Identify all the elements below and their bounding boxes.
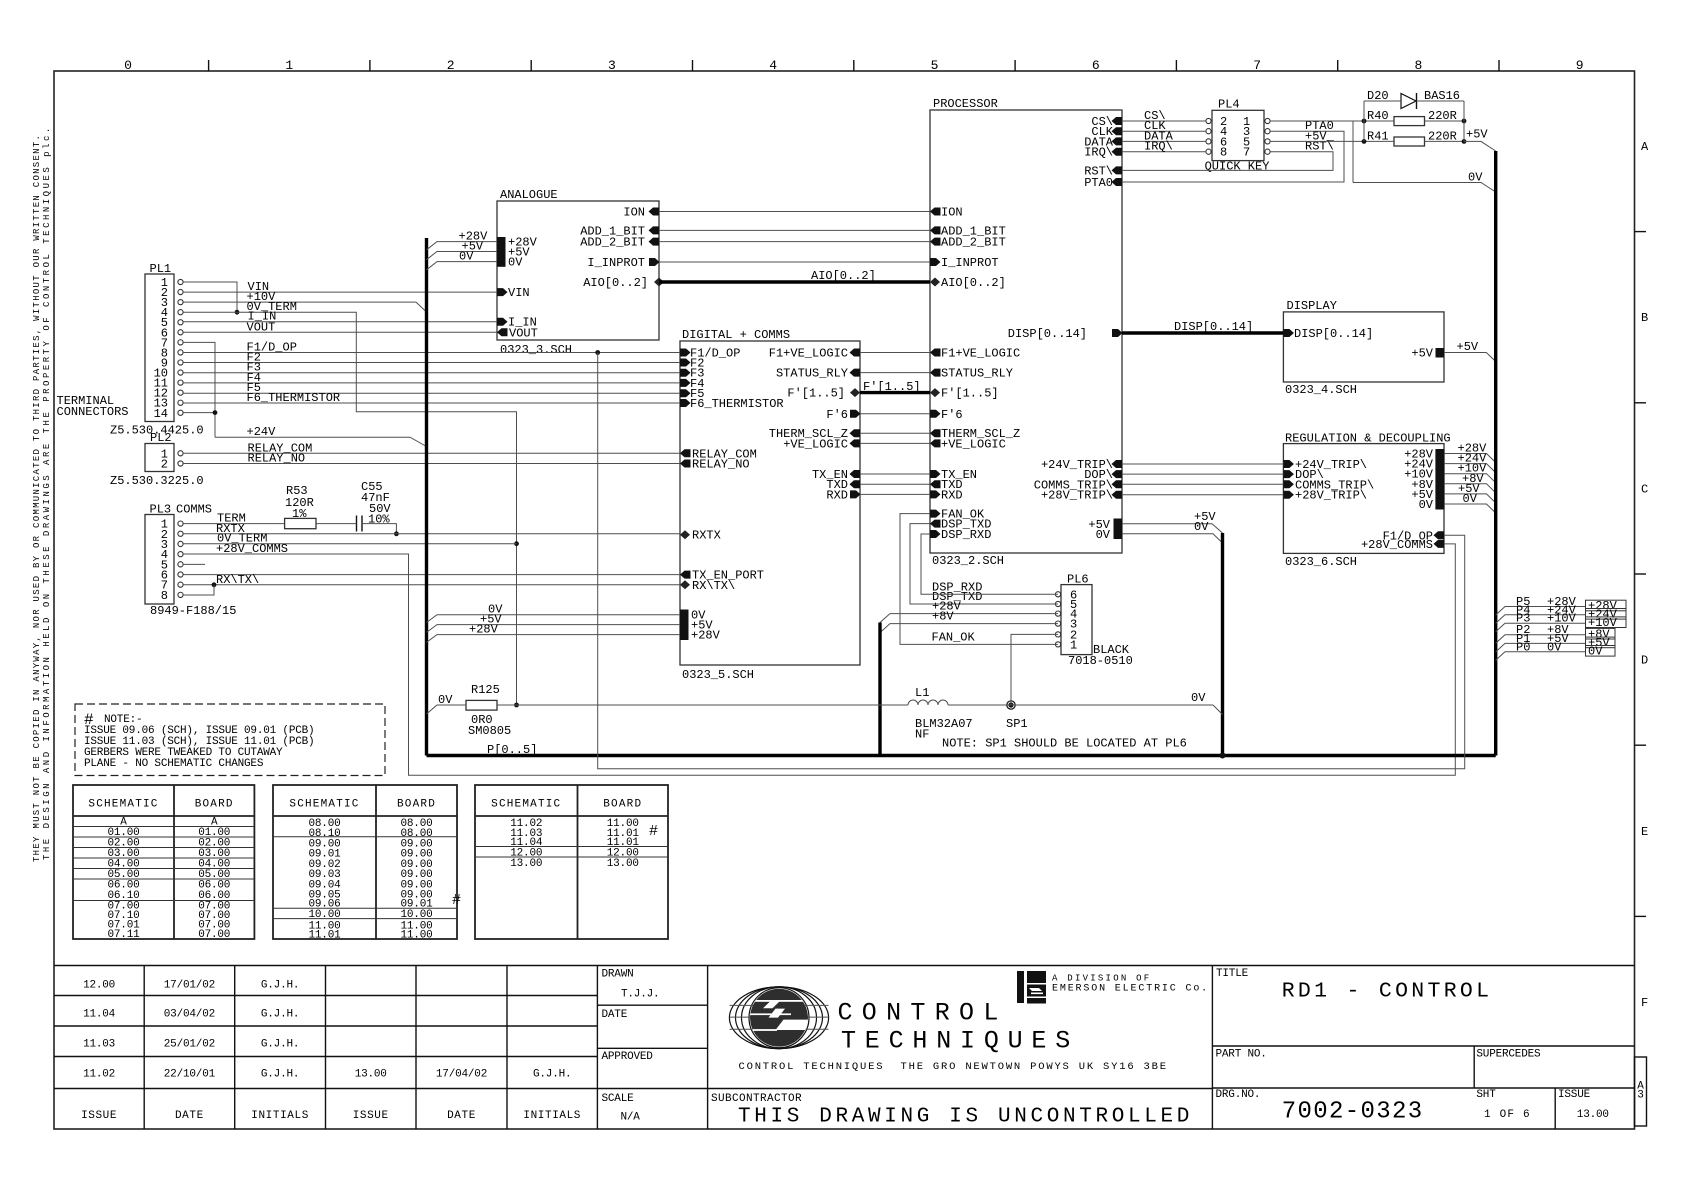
svg-text:SP1: SP1 <box>1006 717 1028 731</box>
wire FAN_OK to PL6 pin1 <box>900 514 1058 645</box>
svg-text:7018-0510: 7018-0510 <box>1068 654 1133 668</box>
svg-text:DISPLAY: DISPLAY <box>1287 299 1337 313</box>
svg-text:RELAY_NO: RELAY_NO <box>692 458 750 472</box>
svg-text:SHT: SHT <box>1476 1089 1496 1101</box>
PROCESSOR pin THERM_SCL_Z <box>930 429 941 437</box>
PROCESSOR pin DATA <box>1112 137 1123 145</box>
svg-text:VOUT: VOUT <box>247 320 276 334</box>
svg-text:25/01/02: 25/01/02 <box>164 1039 215 1051</box>
ANALOGUE pin ADD_1_BIT <box>649 226 660 234</box>
svg-text:0: 0 <box>124 58 132 73</box>
svg-text:DRAWN: DRAWN <box>602 969 634 981</box>
wire PROCESSOR +5V into right bus <box>1122 524 1223 533</box>
DIGITAL pin F5 <box>680 389 691 397</box>
svg-text:PROCESSOR: PROCESSOR <box>933 97 998 111</box>
A3 size tag <box>1635 1057 1647 1126</box>
PROCESSOR pin DOP\ <box>1112 470 1123 478</box>
svg-text:DATE: DATE <box>175 1110 204 1122</box>
DIGITAL pin RXTX <box>680 530 690 539</box>
REGULATION power rail bus entries <box>1444 454 1496 463</box>
svg-text:BOARD: BOARD <box>195 798 234 810</box>
REGULATION pin COMMS_TRIP\ <box>1283 480 1294 488</box>
svg-text:0V: 0V <box>1547 640 1562 654</box>
PROCESSOR pin DISP[0..14] bus <box>1112 329 1123 337</box>
power bus vertical right <box>1494 151 1497 756</box>
svg-text:ION: ION <box>941 206 963 220</box>
svg-text:RXTX: RXTX <box>692 529 721 543</box>
svg-text:THIS DRAWING IS UNCONTROLLED: THIS DRAWING IS UNCONTROLLED <box>738 1106 1193 1129</box>
power bus vertical P[0..5] left <box>425 238 428 756</box>
wire PL6 pin2 to SP1 <box>1011 634 1058 705</box>
svg-text:F'[1..5]: F'[1..5] <box>787 387 845 401</box>
PROCESSOR pin IRQ\ <box>1112 148 1123 156</box>
wire R41 right to +5V node <box>1425 140 1465 142</box>
svg-text:ION: ION <box>623 206 645 220</box>
ANALOGUE pin I_INPROT <box>649 258 660 266</box>
DIGITAL pin RELAY_COM <box>680 449 691 457</box>
wire +28V to PL6 pin4 <box>880 614 1058 623</box>
wire 0V_TERM down to R125 net <box>516 544 518 705</box>
PROCESSOR pin DSP_TXD <box>930 520 941 528</box>
svg-text:17/01/02: 17/01/02 <box>164 979 215 991</box>
PROCESSOR pin F'[1..5] bus <box>930 388 940 397</box>
wire F'6 <box>860 413 930 415</box>
wire 0V from quick key into power bus <box>1353 183 1496 193</box>
PROCESSOR pin I_INPROT <box>930 258 941 266</box>
svg-text:+VE_LOGIC: +VE_LOGIC <box>941 437 1006 451</box>
svg-text:0323_3.SCH: 0323_3.SCH <box>500 343 572 357</box>
svg-text:4: 4 <box>769 58 777 73</box>
svg-text:0V: 0V <box>438 693 453 707</box>
PROCESSOR pin AIO[0..2] bus <box>930 278 940 287</box>
svg-text:RXD: RXD <box>826 488 848 502</box>
power bus vertical from processor to P bus <box>1221 533 1224 756</box>
svg-text:11.04: 11.04 <box>83 1009 116 1021</box>
wire +28V_COMMS from PL3 pin4 <box>183 544 1455 775</box>
svg-text:#: # <box>452 892 461 909</box>
resistor R41 220R <box>1394 137 1425 146</box>
svg-text:03/04/02: 03/04/02 <box>164 1009 215 1021</box>
svg-text:RELAY_NO: RELAY_NO <box>248 452 306 466</box>
svg-text:11.01: 11.01 <box>308 930 341 942</box>
svg-text:8: 8 <box>1414 58 1422 73</box>
svg-text:C: C <box>1641 482 1648 496</box>
svg-text:#: # <box>649 823 658 840</box>
svg-text:13.00: 13.00 <box>1577 1109 1609 1121</box>
svg-text:PLANE - NO SCHEMATIC CHANGES: PLANE - NO SCHEMATIC CHANGES <box>84 758 264 770</box>
svg-text:+5V: +5V <box>1457 340 1479 354</box>
svg-text:+5V: +5V <box>1466 128 1488 142</box>
DIGITAL pin F1/D_OP <box>680 349 691 357</box>
svg-text:F'6: F'6 <box>941 408 963 422</box>
table 2 schematic/board revision cross-reference table <box>273 785 457 939</box>
svg-text:9: 9 <box>1576 58 1584 73</box>
svg-text:0V: 0V <box>1096 528 1111 542</box>
svg-text:+28V: +28V <box>469 623 499 637</box>
PROCESSOR pin STATUS_RLY <box>930 369 941 377</box>
svg-text:+28V_TRIP\: +28V_TRIP\ <box>1295 489 1367 503</box>
svg-text:IRQ\: IRQ\ <box>1144 140 1173 154</box>
svg-text:AIO[0..2]: AIO[0..2] <box>583 276 648 290</box>
DIGITAL pin F3 <box>680 369 691 377</box>
svg-text:DSP_RXD: DSP_RXD <box>932 580 982 594</box>
DIGITAL pin RX\TX\ <box>680 580 690 589</box>
svg-text:COMMS: COMMS <box>176 503 212 517</box>
table 3 schematic/board revision cross-reference table <box>475 785 668 939</box>
PROCESSOR pin TXD <box>930 480 941 488</box>
wire +28V_TRIP\ <box>1122 494 1283 496</box>
svg-text:I_INPROT: I_INPROT <box>941 256 999 270</box>
svg-text:0V: 0V <box>508 256 523 270</box>
wire RXD <box>860 493 930 495</box>
ANALOGUE power pins +28V +5V 0V <box>497 237 506 267</box>
PROCESSOR pin CS\ <box>1112 117 1123 125</box>
svg-text:I_INPROT: I_INPROT <box>587 256 645 270</box>
svg-text:EMERSON ELECTRIC Co.: EMERSON ELECTRIC Co. <box>1052 984 1209 995</box>
svg-text:+28V_COMMS: +28V_COMMS <box>216 542 288 556</box>
wire ADD_2_BIT <box>659 241 930 243</box>
svg-text:8949-F188/15: 8949-F188/15 <box>150 604 236 618</box>
wire TXD <box>860 483 930 485</box>
svg-text:B: B <box>1641 311 1648 325</box>
svg-text:0V: 0V <box>1588 645 1603 659</box>
wire 0V line through R125 L1 SP1 <box>427 705 467 714</box>
svg-text:+5V_: +5V_ <box>1305 129 1335 143</box>
svg-text:11.03: 11.03 <box>83 1039 115 1051</box>
svg-text:F6_THERMISTOR: F6_THERMISTOR <box>247 391 341 405</box>
wire PL4 pin1 to R40 and D20 <box>1270 120 1394 122</box>
wire R40 right to +5V node <box>1425 120 1465 122</box>
svg-text:12.00: 12.00 <box>83 979 115 991</box>
svg-text:ADD_2_BIT: ADD_2_BIT <box>941 236 1006 250</box>
svg-text:NOTE: SP1 SHOULD BE LOCATED AT: NOTE: SP1 SHOULD BE LOCATED AT PL6 <box>942 737 1187 751</box>
wire THERM_SCL_Z <box>860 432 930 434</box>
svg-text:TITLE: TITLE <box>1216 968 1249 980</box>
svg-text:1 OF 6: 1 OF 6 <box>1484 1109 1531 1121</box>
PROCESSOR pin ION <box>930 208 941 216</box>
REGULATION pin F1/D_OP <box>1434 531 1445 539</box>
wire VOUT <box>183 331 497 333</box>
svg-text:PART NO.: PART NO. <box>1216 1048 1267 1060</box>
DIGITAL pin STATUS_RLY <box>850 369 861 377</box>
svg-text:STATUS_RLY: STATUS_RLY <box>941 367 1013 381</box>
DIGITAL pin F6_THERMISTOR <box>680 399 691 407</box>
svg-text:+28V_TRIP\: +28V_TRIP\ <box>1041 489 1113 503</box>
svg-text:17/04/02: 17/04/02 <box>436 1069 487 1081</box>
wire F2 <box>183 362 680 364</box>
wire RX\TX\ <box>183 584 680 586</box>
wire D20 left leg <box>1364 100 1401 102</box>
wire F1/D_OP <box>183 352 680 354</box>
svg-text:07.00: 07.00 <box>198 929 230 941</box>
dashed note box <box>75 704 385 776</box>
bus entry 0V to ANALOGUE <box>427 262 498 270</box>
svg-text:5: 5 <box>931 58 939 73</box>
spark gap SP1 <box>1007 701 1015 709</box>
svg-text:0V: 0V <box>1191 691 1206 705</box>
svg-text:SCHEMATIC: SCHEMATIC <box>491 798 561 810</box>
DIGITAL pin RXD <box>850 490 861 498</box>
wire I_INPROT <box>659 261 930 263</box>
wire +10V into power bus <box>183 302 427 312</box>
wire DISPLAY +5V into bus <box>1444 353 1496 362</box>
svg-text:0V: 0V <box>1463 492 1478 506</box>
svg-text:1: 1 <box>285 58 293 73</box>
DIGITAL pin F1+VE_LOGIC <box>850 349 861 357</box>
capacitor C55 47nF 50V 10% <box>356 516 358 532</box>
svg-text:10.00: 10.00 <box>400 909 432 921</box>
Emerson logo <box>1017 971 1024 1003</box>
bus entry +5V to ANALOGUE <box>427 252 498 260</box>
svg-text:8: 8 <box>161 589 168 603</box>
svg-text:F6_THERMISTOR: F6_THERMISTOR <box>690 397 784 411</box>
svg-text:G.J.H.: G.J.H. <box>533 1069 571 1081</box>
wire F3 <box>183 372 680 374</box>
svg-text:RX\TX\: RX\TX\ <box>692 579 735 593</box>
svg-text:3: 3 <box>608 58 616 73</box>
DIGITAL pin F'6 <box>850 410 861 418</box>
svg-text:N/A: N/A <box>621 1112 641 1124</box>
svg-text:ISSUE: ISSUE <box>353 1110 389 1122</box>
svg-text:DIGITAL + COMMS: DIGITAL + COMMS <box>682 328 790 342</box>
PROCESSOR pin +24V_TRIP\ <box>1112 460 1123 468</box>
wire R53 to C55 <box>316 523 357 525</box>
wire PL1 pin1 to 0V_TERM junction <box>183 282 237 312</box>
svg-text:PL4: PL4 <box>1218 98 1240 112</box>
DIGITAL pin F4 <box>680 379 691 387</box>
svg-text:DRG.NO.: DRG.NO. <box>1216 1089 1261 1101</box>
svg-text:0323_4.SCH: 0323_4.SCH <box>1285 383 1357 397</box>
wire +24V_TRIP\ <box>1122 463 1283 465</box>
svg-text:13.00: 13.00 <box>510 858 542 870</box>
title block outline and grid <box>54 965 1635 967</box>
svg-text:A DIVISION OF: A DIVISION OF <box>1052 973 1151 983</box>
REGULATION pin +24V_TRIP\ <box>1283 460 1294 468</box>
svg-text:13.00: 13.00 <box>355 1069 387 1081</box>
svg-text:CONTROL: CONTROL <box>838 998 1008 1027</box>
svg-text:6: 6 <box>1092 58 1100 73</box>
net P0 0V <box>1496 652 1586 661</box>
svg-text:THE DESIGN AND INFORMATION HEL: THE DESIGN AND INFORMATION HELD ON THESE… <box>42 125 52 860</box>
svg-text:R125: R125 <box>471 683 500 697</box>
PROCESSOR power pins +5V 0V <box>1114 519 1123 540</box>
top ruler ticks <box>208 60 210 71</box>
wire COMMS_TRIP\ <box>1122 483 1283 485</box>
wire DOP\ <box>1122 473 1283 475</box>
REGULATION pin +28V_COMMS <box>1434 540 1445 548</box>
PROCESSOR pin CLK <box>1112 127 1123 135</box>
REGULATION power pins +28V..0V <box>1435 449 1444 510</box>
power bus riser at PL6 <box>878 623 881 756</box>
svg-text:P0: P0 <box>1516 640 1530 654</box>
svg-text:SCHEMATIC: SCHEMATIC <box>88 798 158 810</box>
svg-text:L1: L1 <box>915 686 929 700</box>
wire PL3 pin5 stub <box>183 563 205 565</box>
svg-text:SCHEMATIC: SCHEMATIC <box>289 798 359 810</box>
svg-text:D: D <box>1641 654 1648 668</box>
svg-text:10.00: 10.00 <box>308 909 340 921</box>
svg-text:F: F <box>1641 996 1648 1010</box>
wire CS\ to PL4 <box>1122 120 1206 122</box>
svg-text:DISP[0..14]: DISP[0..14] <box>1294 327 1373 341</box>
wire STATUS_RLY <box>860 372 930 374</box>
wire DATA to PL4 <box>1122 140 1206 142</box>
svg-text:F'[1..5]: F'[1..5] <box>941 387 999 401</box>
DIGITAL pin TX_EN <box>850 470 861 478</box>
net P4 +24V <box>1496 615 1586 624</box>
ANALOGUE pin ADD_2_BIT <box>649 238 660 246</box>
svg-text:1%: 1% <box>292 507 307 521</box>
wire PL3 pin8 to pin7 net <box>183 585 214 595</box>
svg-text:8: 8 <box>1220 146 1227 160</box>
table 1 schematic/board revision cross-reference table <box>73 785 254 939</box>
svg-text:7: 7 <box>1243 146 1250 160</box>
svg-text:1: 1 <box>1070 638 1077 652</box>
svg-text:0323_6.SCH: 0323_6.SCH <box>1285 555 1357 569</box>
svg-text:QUICK KEY: QUICK KEY <box>1205 159 1270 173</box>
svg-text:RX\TX\: RX\TX\ <box>216 573 259 587</box>
DISPLAY pin +5V <box>1436 348 1445 358</box>
svg-text:RXD: RXD <box>941 488 963 502</box>
svg-text:INITIALS: INITIALS <box>251 1110 309 1122</box>
svg-text:22/10/01: 22/10/01 <box>164 1069 216 1081</box>
svg-text:+5V: +5V <box>1411 347 1433 361</box>
bus entry +5V to DIGITAL <box>427 625 681 633</box>
svg-text:SUBCONTRACTOR: SUBCONTRACTOR <box>711 1093 802 1105</box>
svg-text:G.J.H.: G.J.H. <box>261 1069 299 1081</box>
resistor R125 0R0 SM0805 <box>466 700 497 710</box>
svg-text:SM0805: SM0805 <box>468 724 511 738</box>
svg-text:+28V: +28V <box>691 629 721 643</box>
ANALOGUE pin VIN <box>497 288 508 296</box>
wire D20 right leg <box>1417 100 1465 102</box>
svg-text:DATE: DATE <box>447 1110 476 1122</box>
svg-text:+28V_COMMS: +28V_COMMS <box>1361 538 1433 552</box>
bus entry +28V to ANALOGUE <box>427 242 498 250</box>
PROCESSOR pin DSP_RXD <box>930 530 941 538</box>
resistor R40 220R <box>1394 117 1425 126</box>
DISPLAY pin DISP[0..14] bus <box>1283 329 1294 337</box>
DIGITAL pin +VE_LOGIC <box>850 439 861 447</box>
DIGITAL pin TX_EN_PORT <box>680 571 691 579</box>
wire +VE_LOGIC <box>860 442 930 444</box>
wire PL1 pin14 stub to +24V junction <box>183 412 215 414</box>
svg-text:2: 2 <box>161 458 168 472</box>
bus DISP[0..14] to DISPLAY <box>1122 331 1283 334</box>
wire F1+VE_LOGIC <box>860 352 930 354</box>
svg-text:+8V: +8V <box>932 610 954 624</box>
svg-text:AIO[0..2]: AIO[0..2] <box>811 269 876 283</box>
ANALOGUE pin VOUT <box>497 328 508 336</box>
wire ION <box>659 211 930 213</box>
PROCESSOR pin TX_EN <box>930 470 941 478</box>
ANALOGUE pin ION <box>649 208 660 216</box>
bus entry 0V to DIGITAL <box>427 615 681 623</box>
ANALOGUE pin AIO[0..2] <box>654 278 664 287</box>
net P1 +5V <box>1496 643 1586 652</box>
net P3 +10V <box>1496 623 1586 632</box>
svg-text:11.02: 11.02 <box>83 1069 115 1081</box>
svg-text:E: E <box>1641 825 1648 839</box>
svg-text:0V: 0V <box>1194 520 1209 534</box>
ANALOGUE pin I_IN <box>497 318 508 326</box>
wire 0V into right bus <box>1213 705 1223 715</box>
svg-text:SUPERCEDES: SUPERCEDES <box>1476 1048 1541 1060</box>
wire PL4 pin1 net down to 0V <box>1352 121 1354 183</box>
svg-text:G.J.H.: G.J.H. <box>261 979 299 991</box>
REGULATION pin +28V_TRIP\ <box>1283 491 1294 499</box>
wire F6_THERMISTOR <box>183 402 680 404</box>
wire DSP_TXD to PL6 pin5 <box>910 524 1058 604</box>
wire TX_EN <box>860 473 930 475</box>
bus entry +28V to DIGITAL <box>427 635 681 643</box>
DIGITAL pin THERM_SCL_Z <box>850 429 861 437</box>
svg-text:INITIALS: INITIALS <box>523 1110 581 1122</box>
PROCESSOR pin FAN_OK <box>930 510 941 518</box>
wire C55 to RXTX junction <box>362 524 396 534</box>
svg-text:0V: 0V <box>459 250 474 264</box>
svg-text:2: 2 <box>447 58 455 73</box>
PROCESSOR pin RXD <box>930 490 941 498</box>
svg-text:ANALOGUE: ANALOGUE <box>500 188 558 202</box>
wire CLK to PL4 <box>1122 130 1206 132</box>
bus F'[1..5] <box>860 391 930 394</box>
svg-text:10%: 10% <box>368 513 390 527</box>
wire F5 <box>183 392 680 394</box>
svg-text:G.J.H.: G.J.H. <box>261 1009 299 1021</box>
svg-text:07.11: 07.11 <box>107 929 140 941</box>
svg-text:F1+VE_LOGIC: F1+VE_LOGIC <box>941 347 1020 361</box>
svg-text:AIO[0..2]: AIO[0..2] <box>941 276 1006 290</box>
svg-text:7002-0323: 7002-0323 <box>1282 1098 1424 1125</box>
svg-text:TECHNIQUES: TECHNIQUES <box>841 1027 1079 1056</box>
resistor R53 120R 1% <box>285 518 316 528</box>
svg-text:0323_2.SCH: 0323_2.SCH <box>932 554 1004 568</box>
wire DSP_RXD to PL6 pin6 <box>921 534 1058 594</box>
DIGITAL pin F'[1..5] bus <box>850 388 860 397</box>
svg-text:P[0..5]: P[0..5] <box>487 743 537 757</box>
svg-text:+24V: +24V <box>247 425 277 439</box>
svg-text:G.J.H.: G.J.H. <box>261 1039 299 1051</box>
svg-text:ISSUE: ISSUE <box>1558 1089 1591 1101</box>
wire +5V node vertical <box>1463 101 1465 141</box>
wire F1/D_OP long route to REGULATION <box>598 353 1465 769</box>
wire TERM to R53 <box>183 523 285 525</box>
svg-text:IRQ\: IRQ\ <box>1084 146 1113 160</box>
DIGITAL power pins 0V +5V +28V <box>680 610 689 641</box>
svg-text:DISP[0..14]: DISP[0..14] <box>1008 327 1087 341</box>
svg-text:7: 7 <box>1253 58 1261 73</box>
wire 0V_TERM from PL1 pin4 <box>183 312 517 544</box>
svg-text:13.00: 13.00 <box>607 858 639 870</box>
PROCESSOR pin ADD_2_BIT <box>930 238 941 246</box>
net P2 +8V <box>1496 635 1586 644</box>
svg-text:VIN: VIN <box>508 286 530 300</box>
svg-text:14: 14 <box>154 407 168 421</box>
svg-text:T.J.J.: T.J.J. <box>621 989 659 1001</box>
svg-text:PTA0: PTA0 <box>1084 176 1113 190</box>
PROCESSOR pin +28V_TRIP\ <box>1112 491 1123 499</box>
wire IRQ\ to PL4 <box>1122 151 1206 153</box>
svg-text:BOARD: BOARD <box>397 798 436 810</box>
svg-text:FAN_OK: FAN_OK <box>932 630 976 644</box>
svg-text:F'[1..5]: F'[1..5] <box>863 380 921 394</box>
svg-text:VOUT: VOUT <box>509 326 538 340</box>
svg-text:F'6: F'6 <box>826 408 848 422</box>
wire RXTX <box>183 533 680 535</box>
svg-text:STATUS_RLY: STATUS_RLY <box>776 367 848 381</box>
svg-text:+VE_LOGIC: +VE_LOGIC <box>783 437 848 451</box>
